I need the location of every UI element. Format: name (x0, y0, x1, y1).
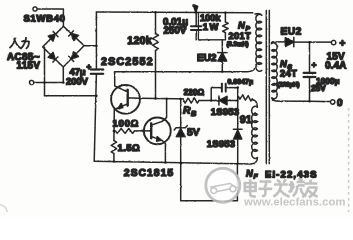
svg-text:24T: 24T (280, 68, 297, 78)
svg-text:2SC2552: 2SC2552 (101, 56, 154, 68)
junction Q1 emitter / 100ohm / 1.5ohm (113, 130, 116, 133)
transformer core (265, 11, 267, 164)
wire zener trunk (180, 99, 182, 163)
diode 1S953 #1 (points left) (219, 96, 227, 105)
junction 0.0047u / feedback trunk (236, 86, 239, 89)
svg-text:B: B (191, 109, 197, 118)
svg-text:220Ω: 220Ω (184, 87, 205, 97)
junction zener trunk / base row (179, 98, 182, 101)
resistor 1.5 ohm (111, 141, 116, 154)
svg-text:1W: 1W (203, 21, 220, 32)
watermark logo circle (206, 168, 240, 202)
svg-text:120k: 120k (127, 35, 152, 47)
junction 0.01u / top rail (195, 11, 198, 14)
svg-text:250V: 250V (164, 26, 187, 37)
wire Q1 emitter down (113, 109, 115, 140)
svg-text:F: F (254, 174, 259, 181)
svg-text:EI-22,43S: EI-22,43S (265, 170, 318, 181)
junction bridge+ / trunk (95, 44, 98, 47)
bridge diode D3 (lower-left arm) (48, 52, 58, 62)
bridge rectifier S1WB40 outline (43, 26, 85, 67)
transformer primary winding Np (255, 14, 262, 16)
wire Q1 base row (140, 97, 184, 100)
transformer secondary winding Ns (270, 42, 273, 44)
svg-text:1S953: 1S953 (207, 139, 235, 150)
junction 120k / top rail (154, 11, 157, 14)
node output 0 terminal (331, 100, 335, 104)
transistor Q1 2SC2552 (111, 85, 140, 114)
junction terminal2 wire (43, 81, 46, 84)
wire snubber node to clamp diode (221, 40, 223, 52)
svg-text:1.5Ω: 1.5Ω (118, 143, 141, 154)
diode 1S953 #2 (points up) (233, 128, 242, 130)
resistor 100k 1W (224, 13, 226, 22)
zener diode 5V (174, 126, 187, 130)
node AC input terminal 2 (30, 80, 34, 84)
wire Q1 collector up to primary/snubber net (114, 72, 116, 86)
junction output cap / 0V wire (308, 100, 311, 103)
svg-text:5V: 5V (187, 128, 200, 139)
junction bridge minus rail / trunk (95, 94, 98, 97)
node AC input terminal 1 (33, 7, 37, 11)
wire bridge bottom vertex down (62, 67, 64, 83)
wire cap bottom to bottom rail (94, 74, 96, 161)
junction 100k / top rail (224, 11, 227, 14)
junction Q2 collector / base row (165, 97, 168, 100)
svg-text:N: N (238, 21, 245, 31)
junction 120k / base row (154, 97, 157, 100)
resistor 91 ohm (239, 95, 253, 101)
wire bottom rail (94, 161, 251, 164)
svg-text:EU2: EU2 (197, 53, 217, 64)
wire collector net to primary bottom (115, 69, 255, 72)
current arrow annotation on rail (193, 5, 198, 13)
svg-text:115V: 115V (17, 61, 41, 72)
bridge diode D1 (upper-left arm) (48, 31, 58, 41)
wire terminal1 to bridge top (37, 9, 63, 26)
svg-text:(220μH): (220μH) (278, 83, 300, 89)
capacitor 0.0047u (211, 88, 221, 101)
resistor 100 ohm (116, 128, 135, 133)
wire Q2 collector up to base row (162, 99, 167, 122)
junction 0.0047u tap / diode row (210, 99, 213, 102)
svg-text:0: 0 (337, 98, 343, 109)
wire terminal2 to bridge left-vertex line (34, 82, 63, 84)
label 入力 (input) (10, 38, 29, 49)
svg-text:25V: 25V (311, 83, 326, 93)
svg-text:0.0047μ: 0.0047μ (228, 79, 254, 86)
watermark right edge dashes (348, 108, 350, 212)
svg-text:0.4A: 0.4A (325, 60, 347, 71)
svg-text:+: + (87, 62, 92, 71)
svg-text:+: + (312, 60, 317, 70)
svg-text:201T: 201T (229, 31, 252, 41)
watermark corner mark bottom-left (0, 205, 7, 212)
junction 1.5ohm / bottom rail (113, 160, 116, 163)
transistor Q2 2SC1815 (144, 117, 171, 144)
transformer feedback winding NF (253, 100, 258, 108)
capacitor C1 47u 200V (91, 68, 103, 70)
wire 220ohm to diode (199, 100, 219, 102)
junction zener trunk / bottom rail (179, 162, 182, 165)
junction feedback trunk / diode row (236, 99, 239, 102)
resistor 120k (155, 12, 157, 33)
junction EU2 clamp / collector wire (221, 70, 224, 73)
wire Ns top to output (272, 41, 285, 43)
junction bridge bottom vertex wire (62, 81, 65, 84)
svg-text:(8.3mH): (8.3mH) (227, 42, 249, 48)
svg-text:91: 91 (240, 114, 252, 126)
junction Q2 emitter / bottom rail (164, 161, 167, 164)
wire feedback trunk (237, 88, 239, 164)
wire +DC top rail (96, 11, 252, 14)
wire bridge right vertex to trunk (84, 45, 96, 47)
junction output cap / +15V wire (308, 41, 311, 44)
wire Q2 emitter to bottom rail (162, 141, 165, 163)
svg-text:EU2: EU2 (281, 27, 302, 38)
svg-text:S1WB40: S1WB40 (24, 14, 66, 25)
svg-text:+: + (340, 39, 346, 50)
svg-text:2SC1815: 2SC1815 (124, 168, 174, 179)
watermark CJK text 电子发烧友 (drawn strokes) (245, 179, 318, 197)
bridge diode D4 (lower-right arm) (69, 52, 79, 62)
svg-text:www.elecfans.com: www.elecfans.com (243, 197, 346, 209)
bridge diode D2 (upper-right arm) (69, 31, 79, 41)
svg-text:1S953: 1S953 (211, 107, 239, 118)
junction feedback trunk / bottom rail (236, 162, 239, 165)
wire bridge minus rail to smoothing cap trunk (45, 95, 97, 97)
wire DC+ trunk top (rail to cap) (95, 12, 97, 69)
wire bridge left vertex down to bottom rail (44, 47, 46, 95)
capacitor C3 1000u 25V (309, 42, 311, 72)
svg-text:N: N (246, 169, 253, 179)
capacitor 0.01u 250V (195, 12, 197, 26)
svg-text:R: R (183, 106, 191, 117)
wire output minus (277, 100, 322, 102)
box around 100k 1W label (198, 12, 225, 39)
wire lower return loop (181, 163, 238, 201)
node output + terminal (331, 40, 335, 44)
svg-text:100Ω: 100Ω (113, 119, 140, 130)
resistor RB 220 ohm (184, 98, 200, 103)
diode EU2 (output rectifier) (285, 37, 294, 46)
svg-text:200V: 200V (66, 76, 89, 87)
diode EU2 (clamp) (218, 53, 227, 62)
